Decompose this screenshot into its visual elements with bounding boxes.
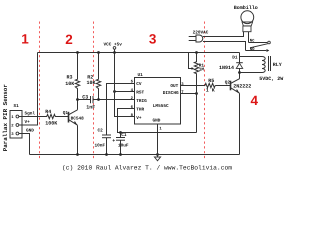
- svg-text:100K: 100K: [45, 120, 57, 126]
- svg-text:R5: R5: [208, 78, 214, 84]
- wire relay coil bottom: [240, 72, 263, 74]
- junction dot R1/rail: [195, 51, 198, 54]
- svg-text:4: 4: [251, 93, 259, 108]
- svg-text:Parallax PIR Sensor: Parallax PIR Sensor: [2, 84, 9, 152]
- svg-text:GND: GND: [26, 129, 34, 134]
- node DISCHG junction: [195, 92, 198, 95]
- resistor R5 1K: [204, 78, 215, 93]
- svg-text:10uF: 10uF: [118, 143, 129, 148]
- wire S1 pin2 V+ up to VCC rail: [19, 53, 38, 126]
- potentiometer R1 1M: [189, 53, 205, 133]
- svg-text:Q2: Q2: [225, 81, 231, 86]
- wire V+ pin8 left and up to VCC rail: [115, 53, 135, 117]
- svg-text:OUT: OUT: [170, 84, 178, 89]
- wire RST pin4 to VCC riser: [115, 91, 135, 93]
- resistor R3 10K: [65, 53, 79, 91]
- svg-text:1nF: 1nF: [86, 105, 95, 111]
- svg-text:V+: V+: [25, 120, 31, 125]
- svg-text:5VDC, 2W: 5VDC, 2W: [259, 76, 283, 82]
- svg-text:Bombillo: Bombillo: [234, 5, 258, 11]
- section divider dashed line 2: [93, 22, 95, 161]
- svg-text:10nF: 10nF: [95, 143, 106, 148]
- svg-text:U1: U1: [138, 73, 144, 78]
- svg-text:DISCHG: DISCHG: [163, 91, 179, 96]
- resistor R4 100K: [45, 109, 57, 126]
- relay contact NC: [249, 39, 271, 44]
- svg-text:C1: C1: [121, 133, 127, 138]
- relay contact NO: [246, 47, 270, 52]
- lamp Bombillo: [234, 5, 258, 32]
- AC source plug 220VAC: [189, 30, 209, 42]
- svg-text:VCC +5v: VCC +5v: [104, 42, 123, 47]
- wire Q2 emitter down to ground rail: [239, 93, 241, 154]
- transistor Q1 BC548: [63, 110, 84, 125]
- wire S1 pin3 GND down to ground rail: [19, 134, 30, 155]
- svg-text:2: 2: [65, 32, 73, 47]
- svg-text:Q1: Q1: [63, 111, 69, 116]
- relay RLY coil: [259, 56, 283, 82]
- transistor Q2 2N2222: [225, 79, 252, 94]
- svg-text:D1: D1: [232, 56, 238, 61]
- node R2/TRIG junction: [97, 98, 100, 101]
- wire VCC rail drop to relay coil: [240, 53, 263, 57]
- svg-text:R4: R4: [45, 109, 51, 115]
- svg-text:BC548: BC548: [71, 117, 85, 122]
- svg-text:220VAC: 220VAC: [193, 30, 209, 35]
- wire VCC rail: [38, 52, 240, 54]
- capacitor C1 10uF polarized: [112, 133, 129, 154]
- svg-text:C2: C2: [98, 129, 104, 134]
- ground rail: [30, 154, 240, 156]
- wire U1 GND pin1 stub: [157, 124, 159, 157]
- section divider dashed line 1: [39, 22, 41, 161]
- wire DISCHG pin7 to timing riser: [181, 93, 197, 95]
- wire Q2 collector up to relay node: [239, 73, 241, 79]
- wire R4 to Q1 base: [56, 116, 69, 118]
- node C1 top junction: [119, 131, 122, 134]
- wire OUT pin3 to R5: [181, 85, 205, 87]
- junction dot V+ riser/rail: [113, 51, 116, 54]
- relay contact arm: [250, 44, 268, 48]
- junction dot C1/ground: [119, 153, 122, 156]
- capacitor C2 10nF: [95, 129, 112, 155]
- junction dot R3/rail: [76, 51, 79, 54]
- node RST / V+ riser junction: [113, 90, 116, 93]
- svg-text:1M: 1M: [199, 68, 205, 73]
- junction dot R2/rail: [97, 51, 100, 54]
- node relay coil / D1 / Q2 collector junction: [238, 71, 241, 74]
- wire Q1 collector to C3: [78, 99, 91, 101]
- ground symbol: [154, 157, 160, 161]
- timer U1 LM555C: [131, 73, 185, 131]
- svg-text:1 K: 1 K: [206, 87, 215, 93]
- svg-text:CV: CV: [136, 82, 142, 87]
- capacitor C3 1nF: [82, 94, 95, 110]
- node VCC supply symbol: [104, 42, 123, 52]
- svg-text:NO: NO: [250, 47, 255, 52]
- svg-text:+: +: [112, 138, 115, 144]
- wire AC plug bottom to NO contact: [203, 42, 246, 51]
- svg-text:10K: 10K: [65, 81, 74, 87]
- svg-text:1: 1: [21, 31, 29, 46]
- wire R5 to Q2 base: [215, 85, 230, 87]
- svg-text:C3: C3: [82, 94, 88, 100]
- svg-text:THR: THR: [136, 107, 144, 112]
- svg-text:3: 3: [149, 32, 157, 47]
- svg-text:NC: NC: [250, 39, 255, 44]
- svg-text:2N2222: 2N2222: [233, 84, 251, 90]
- svg-text:TRIG: TRIG: [136, 99, 147, 104]
- wire THR pin6 to timing node: [118, 109, 197, 133]
- wire C3 to TRIG pin 2: [93, 99, 135, 101]
- svg-text:1N914: 1N914: [219, 65, 234, 71]
- wire CV pin5 to C2: [107, 84, 135, 136]
- junction dot Q1 emitter/ground: [76, 153, 79, 156]
- svg-text:LM555C: LM555C: [153, 104, 169, 109]
- svg-text:Sgnl: Sgnl: [25, 111, 36, 117]
- svg-text:(c) 2010 Raul Alvarez T. / www: (c) 2010 Raul Alvarez T. / www.TecBolivi…: [62, 164, 232, 171]
- svg-text:V+: V+: [136, 116, 142, 121]
- wire S1 pin1 Sgnl to R4: [19, 116, 46, 118]
- junction dot C2/ground: [105, 153, 108, 156]
- wire Q1 emitter down to ground rail: [77, 125, 79, 154]
- section divider dashed line 3: [204, 22, 206, 161]
- wire C1 tap: [120, 133, 122, 138]
- svg-text:GND: GND: [153, 119, 161, 124]
- connector S1 Parallax PIR Sensor header: [10, 104, 35, 138]
- svg-text:RLY: RLY: [273, 62, 282, 68]
- junction dot U1 GND/ground: [156, 153, 159, 156]
- svg-text:R3: R3: [67, 74, 73, 80]
- svg-text:RST: RST: [136, 91, 144, 96]
- wire Q1 collector up to R3: [77, 90, 79, 110]
- svg-text:S1: S1: [14, 104, 20, 109]
- diode D1 1N914: [219, 56, 243, 73]
- wire lamp right terminal to NC contact: [248, 32, 250, 43]
- svg-text:10K: 10K: [87, 80, 96, 86]
- wire lamp left terminal to AC plug top: [203, 32, 244, 37]
- resistor R2 10K: [87, 53, 101, 100]
- node Q1 collector / C3 junction: [76, 98, 79, 101]
